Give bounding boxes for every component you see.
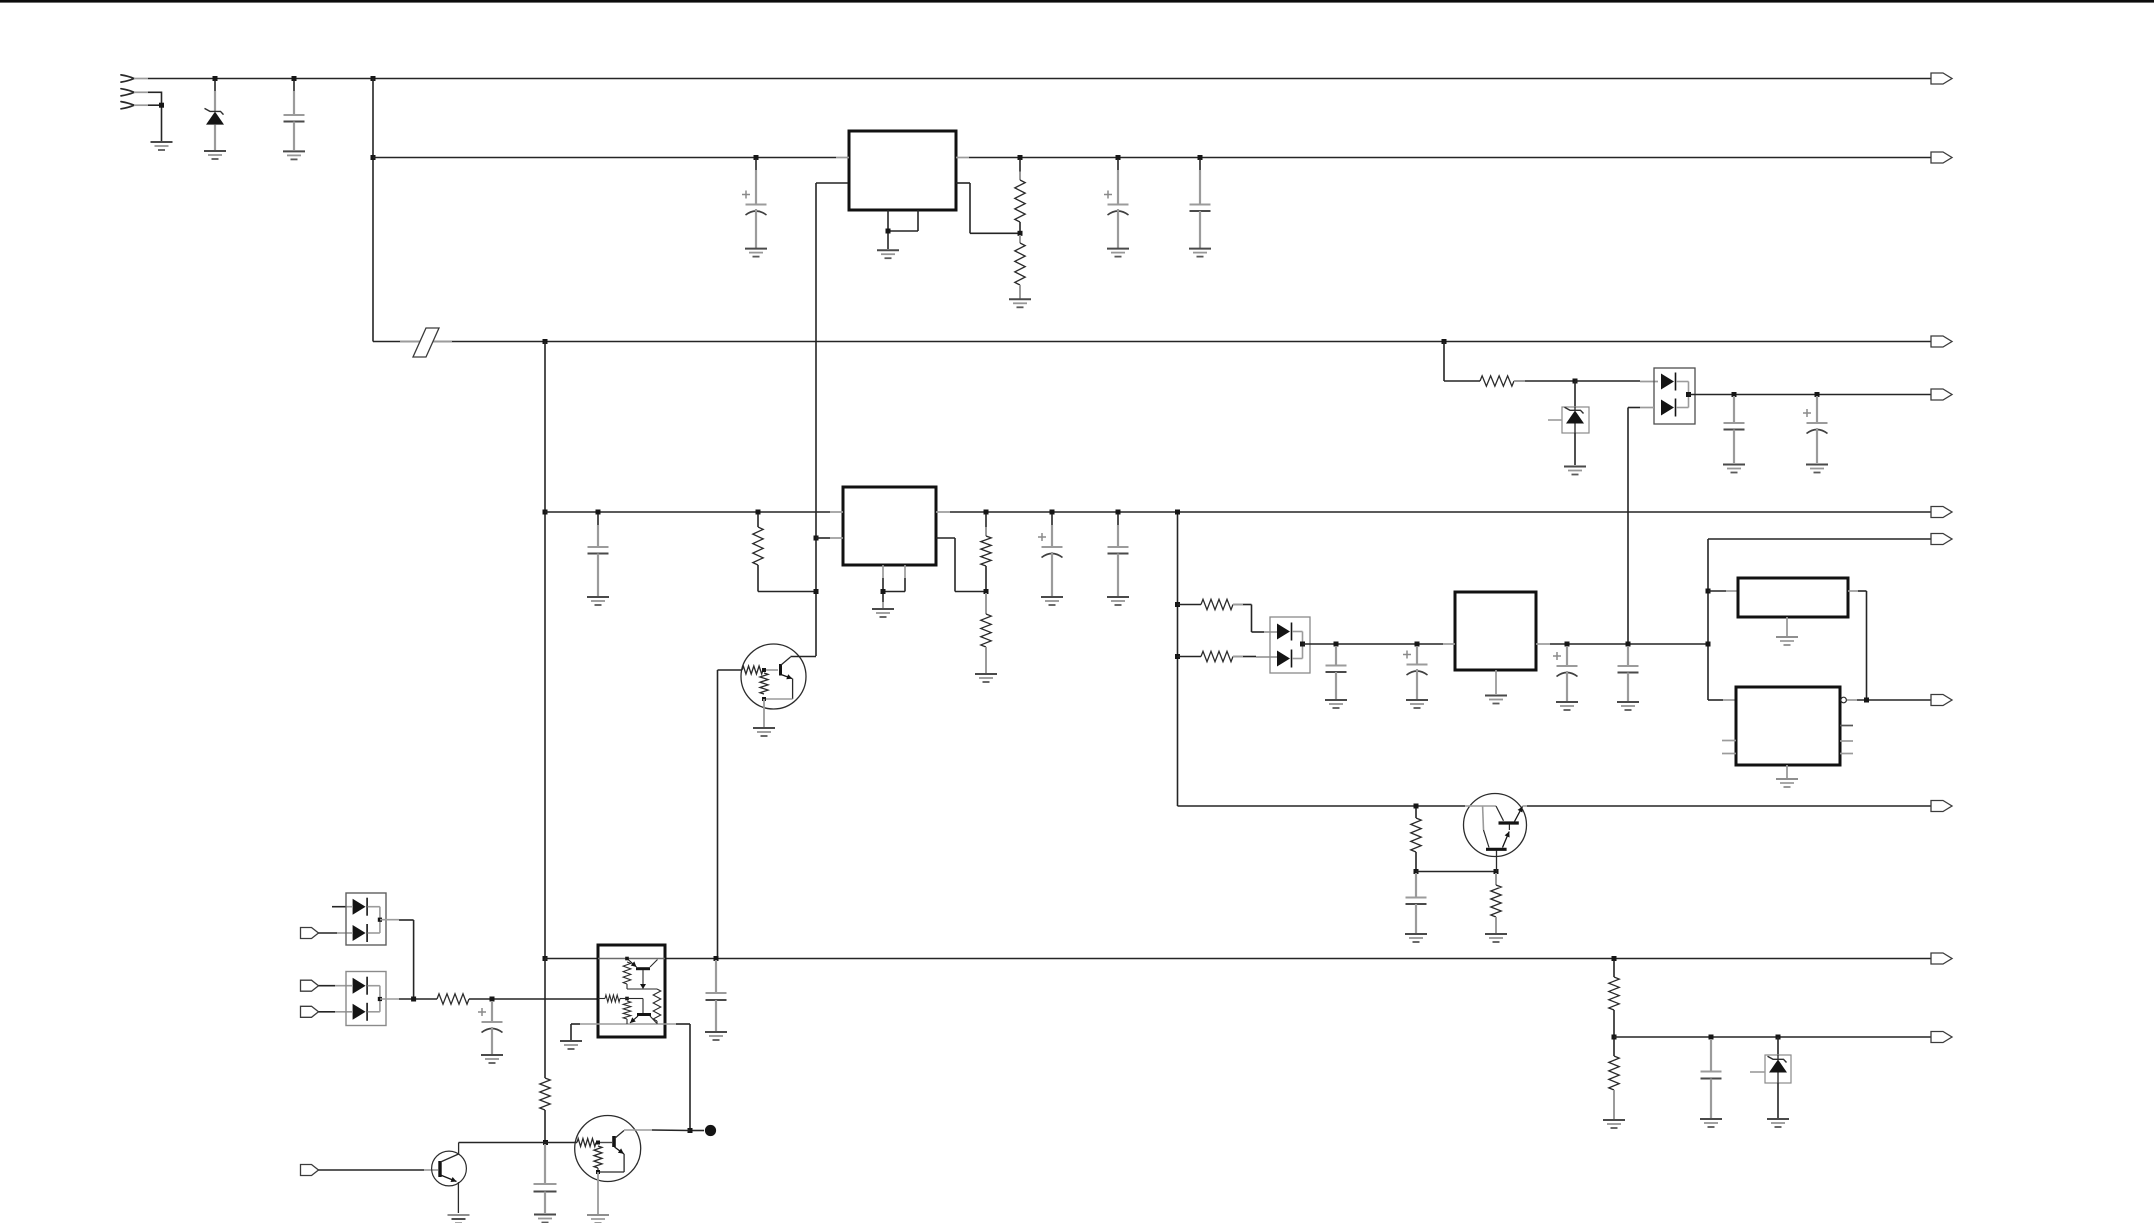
ground G7	[1107, 249, 1129, 257]
wire U2 fb lower pin	[936, 538, 986, 592]
resistor R8	[1178, 651, 1278, 661]
capacitor C1	[284, 80, 305, 150]
node row1-zener	[213, 76, 218, 81]
node U5 out	[1864, 698, 1869, 703]
node row4a-C5	[1732, 392, 1737, 397]
node R9-C14	[1414, 869, 1419, 874]
capacitor C10	[1326, 646, 1347, 699]
node R12-row8	[1612, 1035, 1617, 1040]
node row4a-C6	[1815, 392, 1820, 397]
wire row6 left	[1178, 805, 1466, 807]
U6 internals	[598, 957, 661, 1024]
zener diode D1	[205, 80, 225, 150]
node U6pin4-Q3	[688, 1128, 693, 1133]
diode pair D6/D7	[346, 893, 386, 945]
node col545-row7	[543, 956, 548, 961]
connector OUT row1	[1931, 73, 1952, 84]
node row5-C12	[1565, 642, 1570, 647]
node R1-R2	[1018, 231, 1023, 236]
node row3-branch1444	[1442, 339, 1447, 344]
wire row5 left	[1303, 643, 1444, 645]
ground G26	[1485, 934, 1507, 942]
ground G17	[753, 728, 775, 736]
wire row5 right	[1550, 643, 1708, 645]
node Q1 emitter	[762, 697, 766, 701]
ground G24	[1776, 779, 1798, 787]
connector OUT row8	[1931, 1032, 1952, 1043]
ground G14	[975, 674, 997, 682]
capacitor C12 (polarized)	[1553, 646, 1578, 701]
node row3-col545	[543, 339, 548, 344]
node row4-C7	[596, 510, 601, 515]
ground G30	[1603, 1120, 1625, 1128]
wire row2 rail right	[969, 157, 1931, 159]
capacitor C17	[1701, 1039, 1722, 1118]
ground G35	[587, 1215, 609, 1223]
ground G32	[1767, 1119, 1789, 1127]
dc-dc converter U3	[1443, 592, 1550, 670]
wire U1 GND pins	[888, 210, 918, 249]
transistor Q4	[432, 1143, 467, 1214]
transistor Q3	[575, 1116, 641, 1182]
wire col1708	[1708, 539, 1736, 700]
resistor R7	[1178, 599, 1278, 632]
wire D8 input	[319, 985, 353, 987]
ground G21	[1556, 702, 1578, 710]
ground G33	[534, 1215, 556, 1223]
ground G13	[872, 602, 894, 617]
capacitor C13	[1618, 646, 1639, 701]
ground G8	[1189, 249, 1211, 257]
node col545-Q3base	[543, 1140, 548, 1145]
wire U1 out lower pin	[956, 183, 1020, 233]
wire row4b	[1708, 538, 1931, 540]
wire U4 out	[1848, 591, 1867, 700]
wire U4 gnd pin	[1786, 617, 1788, 636]
ground G22	[1617, 702, 1639, 710]
capacitor C9	[1108, 514, 1129, 596]
connector OUT row4b	[1931, 534, 1952, 545]
ground G28	[560, 1041, 582, 1049]
node Q3 base	[596, 1141, 600, 1145]
node row4-C9	[1116, 510, 1121, 515]
node row7-R12	[1612, 956, 1617, 961]
connector IN row-b2	[301, 928, 319, 939]
wire col717 vertical	[717, 670, 719, 959]
ground G10	[1723, 465, 1745, 473]
wire Q4 base	[319, 1169, 439, 1171]
wire to diode pair top	[1575, 380, 1658, 383]
node row8-Z2	[1776, 1035, 1781, 1040]
node D2D3 out	[1686, 392, 1691, 397]
ground G23	[1776, 637, 1798, 645]
resistor R14	[540, 959, 550, 1143]
wire U4 input	[1708, 590, 1738, 592]
capacitor C6 (polarized)	[1803, 396, 1828, 463]
ground G25	[1405, 934, 1427, 942]
node Q1 base	[762, 668, 766, 672]
ground G6	[1009, 299, 1031, 307]
capacitor C8 (polarized)	[1038, 514, 1063, 596]
ground G9	[1564, 467, 1586, 475]
wire col545 vertical	[544, 342, 546, 959]
node R5-R6	[984, 589, 989, 594]
resistor R10	[1491, 873, 1501, 933]
TVS Z1	[1548, 381, 1589, 465]
node row5-C13	[1626, 642, 1631, 647]
capacitor C16	[706, 960, 727, 1031]
wire D6 input stub	[332, 906, 352, 908]
node row4-col1177	[1175, 510, 1180, 515]
top border bar	[0, 0, 2154, 3]
capacitor C14	[1406, 873, 1427, 933]
ground G4	[745, 249, 767, 257]
node row4-R5	[984, 510, 989, 515]
resistor R3	[1480, 376, 1575, 386]
wire branch1444	[1444, 342, 1480, 382]
resistor R2	[1015, 235, 1025, 299]
ground G20	[1485, 696, 1507, 704]
node D6D7 out	[378, 918, 382, 922]
node U2 gnd	[881, 589, 886, 594]
ground G15	[1041, 597, 1063, 605]
node D4D5 out	[1300, 642, 1305, 647]
connector IN row-c2	[301, 1006, 319, 1017]
connector J1 pin3	[121, 102, 148, 109]
solder point	[705, 1125, 716, 1136]
node col1708-U4	[1706, 589, 1711, 594]
TVS Z2	[1750, 1037, 1791, 1118]
node Q2 emitter	[1494, 869, 1499, 874]
ground G34	[448, 1215, 470, 1223]
wire VIN rail row1	[148, 78, 1931, 80]
node col1708-row5	[1706, 642, 1711, 647]
node diode outputs join	[411, 997, 416, 1002]
wire D3 input from row5	[1628, 408, 1654, 645]
ground G2	[204, 151, 226, 159]
wire ADJ col816	[815, 183, 817, 656]
wire U6 pin2 gnd	[571, 1024, 598, 1040]
diode pair D4/D5	[1270, 617, 1310, 673]
node row2-C3	[1116, 155, 1121, 160]
node row2-C4	[1198, 155, 1203, 160]
wire col1177 vertical	[1177, 512, 1179, 806]
connector J1 pin1	[121, 75, 148, 82]
node col816-R4	[814, 589, 819, 594]
wire D8D9 out	[380, 998, 437, 1000]
wire row7 left	[545, 958, 598, 960]
connector OUT row6	[1931, 801, 1952, 812]
capacitor C2 (polarized)	[742, 159, 767, 248]
resistor R9	[1411, 808, 1421, 872]
node row4-C8	[1050, 510, 1055, 515]
node Q3 emitter	[596, 1170, 600, 1174]
wire R9 to Q2	[1416, 871, 1496, 873]
capacitor C3 (polarized)	[1104, 159, 1129, 248]
connector OUT row4	[1931, 507, 1952, 518]
connector J1 pin2	[121, 89, 148, 96]
capacitor C4	[1190, 159, 1211, 248]
capacitor C15 (polarized)	[478, 1001, 503, 1054]
node D8D9 out	[378, 997, 382, 1001]
node row5-C11	[1415, 642, 1420, 647]
node row2-C2	[754, 155, 759, 160]
wire row4 left	[545, 511, 830, 513]
wire D6D7 out	[380, 920, 414, 999]
wire U2 GND pins	[883, 565, 905, 602]
ground G19	[1406, 700, 1428, 708]
node R3-TVS	[1573, 379, 1578, 384]
capacitor C11 (polarized)	[1403, 646, 1428, 699]
wire D7 input	[319, 932, 353, 934]
ground G16	[1107, 597, 1129, 605]
resistor R13	[1609, 1039, 1619, 1119]
ground G31	[1700, 1119, 1722, 1127]
resistor R5	[981, 514, 991, 592]
resistor R4	[753, 514, 816, 592]
wire D2D3 out row	[1689, 394, 1932, 396]
node row7-C16	[714, 956, 719, 961]
ground G3	[283, 151, 305, 159]
ground G5	[877, 250, 899, 258]
node row1-C1	[292, 76, 297, 81]
wire row3 rail	[373, 341, 1931, 343]
capacitor C18	[534, 1144, 557, 1213]
resistor R11	[437, 994, 598, 1004]
diode pair D8/D9	[346, 972, 386, 1026]
node R11-C15	[490, 997, 495, 1002]
wire Q4 collector row	[459, 1142, 577, 1144]
connector OUT row3	[1931, 336, 1952, 347]
diode pair D2/D3	[1654, 368, 1695, 424]
wire row6 right	[1527, 805, 1931, 807]
wire pin2/pin3 to ground	[148, 92, 162, 142]
node row4-R4	[756, 510, 761, 515]
wire U1 ADJ left	[816, 182, 848, 184]
wire row4 right	[950, 511, 1931, 513]
wire Q3 emitter gnd	[597, 1172, 599, 1214]
node col1177-R8	[1175, 654, 1180, 659]
resistor R1	[1015, 159, 1025, 233]
ground G18	[1325, 700, 1347, 708]
connector IN row-c1	[301, 980, 319, 991]
resistor R12	[1609, 960, 1619, 1037]
node row5-C10	[1334, 642, 1339, 647]
capacitor C7	[588, 514, 609, 596]
node row2 start	[371, 155, 376, 160]
connector OUT row2	[1931, 152, 1952, 163]
ground G29	[705, 1032, 727, 1040]
wire U6 pin4	[665, 1024, 704, 1131]
resistor R6	[981, 593, 991, 673]
wire U5 gnd pin	[1786, 765, 1788, 778]
connector OUT row6a	[1931, 695, 1952, 706]
transistor Q1	[718, 644, 817, 709]
connector OUT row7	[1931, 953, 1952, 964]
wire U3 gnd pin	[1495, 670, 1497, 694]
wire Q1 emitter gnd	[763, 699, 765, 727]
ground G27	[481, 1055, 503, 1063]
ic U5	[1722, 687, 1853, 765]
inverter bubble U5 out	[1841, 697, 1931, 703]
node U1 gnd	[886, 229, 891, 234]
connector IN Q4	[301, 1165, 319, 1176]
capacitor C5	[1724, 396, 1745, 463]
connector OUT row4a	[1931, 389, 1952, 400]
wire col373 vertical	[372, 79, 374, 342]
wire row7 right	[665, 958, 1931, 960]
wire row2 rail left	[373, 157, 836, 159]
wire Q3 collector	[624, 1129, 690, 1132]
node row2-R1	[1018, 155, 1023, 160]
transistor array U6	[598, 945, 665, 1037]
fuse F1	[400, 328, 452, 357]
ground G12	[587, 597, 609, 605]
node row6-R9	[1414, 804, 1419, 809]
regulator U2	[816, 487, 950, 565]
ground G1	[151, 142, 173, 150]
wire D9 input	[319, 1011, 353, 1013]
node pin3 junction	[159, 103, 164, 108]
ic U4	[1738, 578, 1848, 617]
node col1177-R7	[1175, 602, 1180, 607]
node row4 start	[543, 510, 548, 515]
ground G11	[1806, 465, 1828, 473]
transistor Q2 (darlington)	[1464, 794, 1528, 872]
regulator U1	[836, 131, 969, 210]
wire row8	[1614, 1036, 1931, 1038]
node row8-C17	[1709, 1035, 1714, 1040]
node row1-col373	[371, 76, 376, 81]
node col816-U2adj	[814, 536, 819, 541]
